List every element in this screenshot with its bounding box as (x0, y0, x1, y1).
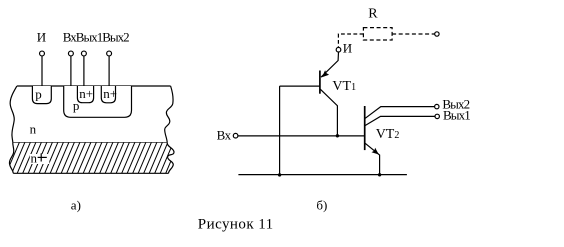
svg-text:ВхВых1Вых2: ВхВых1Вых2 (63, 30, 129, 45)
n-epi region outline (top surface + torn side edges) (10, 86, 173, 143)
p-well (large, base) (64, 86, 132, 117)
svg-text:Вх: Вх (217, 128, 232, 143)
dashed wire: left of R to corner (338, 34, 363, 47)
wire: VT1 collector (320, 89, 337, 136)
transistor VT1 (pnp) base bar (319, 71, 321, 94)
junction: VT1 collector on base wire (336, 134, 339, 137)
terminal circle Вых1 (circuit) (435, 114, 439, 118)
n+ strip outline (9, 143, 174, 174)
junction: left bus on rail (278, 173, 281, 176)
svg-text:И: И (343, 40, 352, 55)
terminal circle Вых2 (circuit) (435, 104, 439, 108)
svg-text:VT2: VT2 (376, 127, 400, 142)
VT2 emitter arrow (points out = npn) (372, 148, 379, 155)
boundary line n / n+ (13, 142, 167, 144)
p-well (left, И contact) (32, 86, 51, 104)
wire: И to VT1 emitter (321, 52, 339, 77)
svg-text:VT1: VT1 (332, 79, 356, 94)
terminal circle Вх (circuit) (233, 133, 238, 138)
wire: Вх to VT2 base (238, 135, 365, 137)
label n+ (substrate) (30, 154, 50, 164)
svg-text:Рисунок 11: Рисунок 11 (198, 217, 274, 233)
terminal circle Вых1 (81, 51, 86, 56)
svg-text:n: n (31, 151, 38, 166)
wire: Вых2 lead (108, 56, 110, 86)
wire: left bus vertical down to bottom rail (279, 86, 281, 175)
n+ well 1 (Вых1) (77, 86, 93, 103)
svg-text:И: И (37, 30, 46, 45)
svg-text:p: p (35, 87, 42, 102)
wire: VT1 base to left bus (280, 85, 320, 87)
terminal circle И (circuit) (336, 47, 341, 52)
svg-text:n+: n+ (79, 86, 93, 101)
svg-text:Вых1: Вых1 (443, 108, 470, 123)
wire: И lead (41, 56, 43, 86)
svg-text:n+: n+ (103, 86, 117, 101)
transistor VT2 (npn, dual collector) base bar (364, 106, 366, 150)
n+ well 2 (Вых2) (101, 86, 115, 103)
terminal circle И (40, 51, 45, 56)
svg-text:p: p (73, 98, 80, 113)
svg-text:R: R (368, 7, 378, 22)
svg-text:б): б) (316, 197, 327, 212)
svg-text:n: n (30, 122, 37, 137)
terminal circle Вх (68, 51, 73, 56)
resistor R (dashed body) (363, 28, 392, 40)
wire: Вых1 lead (83, 56, 85, 86)
terminal circle (right of R) (435, 32, 439, 36)
junction: VT2 emitter on rail (378, 173, 381, 176)
dashed wire: right of R to terminal (392, 33, 435, 35)
VT1 emitter arrow (points into base = pnp) (322, 70, 329, 77)
wire: VT2 emitter (365, 143, 379, 174)
wire: VT2 collector 2 to Вых1 (365, 116, 435, 125)
terminal circle Вых2 (107, 51, 112, 56)
wire: Вх lead (70, 56, 72, 89)
wire: VT2 collector 1 to Вых2 (365, 107, 434, 119)
svg-text:а): а) (71, 197, 81, 212)
bottom rail (238, 174, 407, 176)
